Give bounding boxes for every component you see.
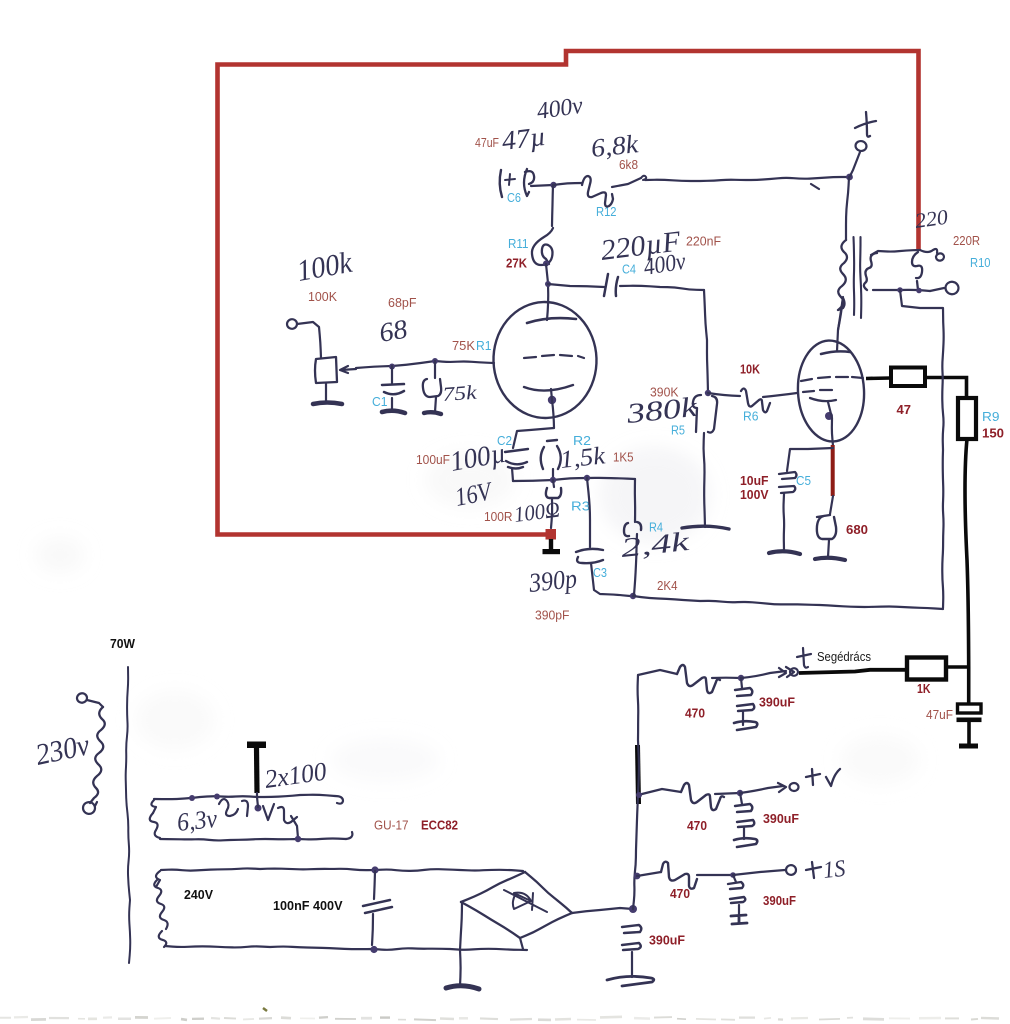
wire row3 to terminal (733, 870, 785, 875)
wire tube2 grid to resistor 47 (866, 376, 891, 380)
resistor R3 100R cup (553, 480, 554, 487)
resistor R9 150 rectangle (958, 398, 976, 439)
ground squiggle below row2 cap (734, 838, 757, 847)
svg-text:390uF: 390uF (763, 811, 799, 826)
wire 470 row3 to cap junction (697, 874, 733, 876)
node junction row3 cap (730, 872, 736, 878)
node input terminal circle (286, 318, 298, 330)
svg-text:6,3v: 6,3v (176, 804, 219, 837)
scan edge bottom band (0, 1017, 11, 1019)
tube V2 anode bar (821, 351, 850, 354)
svg-text:R9: R9 (982, 409, 1000, 424)
svg-text:C1: C1 (372, 394, 388, 409)
wire resistor 1K to R9/47uF rail (946, 665, 969, 669)
capacitor C6 right plate (524, 169, 534, 196)
wire C5 to ground (782, 494, 785, 551)
node junction secondary bottom left (897, 287, 903, 293)
svg-text:100K: 100K (308, 289, 337, 304)
wire cathode bottom bus (513, 478, 635, 481)
inductor mains primary winding (90, 707, 105, 803)
svg-text:47uF: 47uF (475, 135, 499, 150)
node junction C6/R11/R12 (550, 182, 556, 188)
wire pot wiper to tube1 grid (356, 361, 494, 368)
node mains terminal bottom circle (82, 801, 96, 815)
node Segedracs terminal chevrons (779, 667, 794, 677)
resistor 47 (plate stopper) rectangle (891, 368, 925, 387)
capacitor C4 220nF plates (604, 274, 618, 296)
capacitor C2 100uF plates (505, 449, 528, 469)
wire row3 rail to 470 (637, 872, 661, 876)
ground below 47uF (959, 744, 978, 749)
wire mains top to primary coil (87, 700, 103, 707)
bridge diode symbol scribble (504, 890, 547, 912)
wire cathode stem tube V2 (828, 402, 833, 446)
node plus terminal circle (855, 140, 868, 152)
HV winding 240V bottom edge (159, 931, 167, 947)
wire primary coil to bottom terminal (95, 802, 97, 806)
wire bottom return to right side (633, 596, 943, 609)
svg-text:390uF: 390uF (759, 695, 795, 710)
capacitor 390uF reservoir (622, 925, 641, 950)
wire row1 to Segedracs terminal (741, 671, 786, 678)
resistor 470 row1 squiggle (677, 665, 720, 693)
wire red feedback loop from R3 ground around left/top to output transformer secondary (218, 51, 919, 535)
tube V2 grid dashes (801, 377, 863, 381)
HV winding left zigzag (154, 880, 167, 929)
svg-text:2K4: 2K4 (657, 578, 678, 593)
tick mark below supply wire (811, 184, 819, 189)
node junction row1 cap (738, 675, 744, 681)
wire plus terminal to junction (850, 152, 860, 176)
capacitor C6 47uF left plate (500, 170, 502, 197)
tube V1 grid dashes (524, 355, 584, 358)
HV winding 240V top edge (156, 871, 160, 887)
wire heater scribble to bottom edge (291, 816, 298, 838)
wire 2x100 stem continues to tap (257, 793, 258, 807)
capacitor C1 68pF (391, 366, 393, 383)
wire R9 bottom down to 1K junction (965, 439, 969, 667)
wire C2 to bottom bus (512, 468, 513, 481)
wire R2 bottom to bus (552, 469, 554, 479)
svg-text:220R: 220R (953, 233, 980, 248)
wire secondary to lower return (900, 290, 944, 608)
wire bridge output to rail junction (572, 908, 633, 913)
svg-text:470: 470 (687, 818, 707, 833)
capacitor C3 390pF (587, 478, 590, 547)
ground at red wire end below R3 (549, 539, 553, 550)
svg-text:240V: 240V (184, 887, 213, 902)
ground below R5 (682, 526, 729, 529)
svg-text:100uF: 100uF (416, 452, 450, 467)
wire cathode stem tube V1 (551, 389, 554, 428)
svg-text:10uF: 10uF (740, 473, 769, 488)
svg-text:C6: C6 (507, 190, 521, 205)
node junction C3/R4 bottom (630, 593, 636, 599)
node junction R3 on bus (550, 477, 556, 483)
svg-text:680: 680 (846, 522, 868, 537)
OT secondary top edge (871, 250, 920, 255)
wire Segedracs terminal to resistor 1K (799, 670, 907, 673)
svg-text:70W: 70W (110, 636, 136, 651)
capacitor 47uF polarized plates (958, 704, 982, 713)
tube V1 envelope (492, 300, 599, 420)
svg-text:R6: R6 (743, 409, 759, 424)
svg-text:1K5: 1K5 (613, 450, 634, 465)
heater winding right hook bottom (346, 832, 352, 839)
ground below 680 (815, 558, 845, 560)
svg-text:390uF: 390uF (763, 893, 796, 908)
node junction R1 (432, 358, 438, 364)
row1 wire rail corner to 470 (638, 670, 677, 675)
capacitor 390uF row3 (733, 875, 736, 882)
heater scribble between taps (219, 799, 248, 816)
wire bridge bottom corner to HV bottom edge (520, 938, 523, 949)
node cathode blob tube V2 (825, 412, 833, 420)
svg-text:470: 470 (685, 706, 705, 721)
label plus check handwritten row2 (806, 769, 840, 786)
wire input terminal to volume pot (297, 322, 321, 358)
OT core line right (860, 237, 861, 318)
label plus handwritten at output terminal (855, 112, 876, 137)
svg-text:390uF: 390uF (649, 933, 685, 948)
resistor R2 1K5 arcs (541, 440, 561, 469)
wire R6 to tube2 grid (763, 393, 797, 397)
node secondary bottom terminal circle (945, 281, 960, 295)
ground below bridge (446, 986, 479, 989)
wire dark red cathode segment (831, 445, 835, 496)
ground below R1 (424, 412, 441, 414)
tube V1 cathode arc (524, 385, 573, 391)
node secondary top terminal circle (935, 253, 944, 262)
svg-text:Segédrács: Segédrács (817, 649, 871, 664)
ground below C1 (382, 411, 405, 413)
svg-text:220nF: 220nF (686, 234, 721, 249)
resistor R6 10K squiggle (708, 393, 740, 396)
svg-text:150: 150 (982, 426, 1004, 441)
wire R11 to anode node (546, 264, 548, 283)
wire supply junction down to OT primary (846, 177, 849, 240)
node junction heater tap 2 (214, 794, 220, 800)
node junction C1 (389, 364, 395, 370)
node junction plus supply (846, 174, 853, 181)
wire 470 row1 to cap junction (712, 677, 740, 680)
wire anode node to C4 (548, 284, 604, 287)
wire 47uF to ground (967, 722, 971, 744)
wire cathode to 680 resistor (830, 496, 833, 514)
label plus handwritten Segedracs (797, 648, 811, 668)
node cathode feedthrough blob tube V1 (548, 396, 556, 404)
svg-text:100R: 100R (484, 509, 513, 524)
heater scribble V right (263, 804, 297, 823)
capacitor 100nF 400V (374, 871, 375, 899)
wire secondary bottom to terminal (930, 288, 944, 291)
node row3 terminal circle (785, 864, 797, 875)
resistor R5 390K squiggle (693, 395, 717, 433)
capacitor 390uF row2 (740, 793, 742, 804)
node junction C3 on bus (584, 475, 590, 481)
OT secondary bottom edge (873, 290, 930, 291)
capacitor C5 10uF plates (779, 472, 797, 493)
wire R3 to red node (551, 499, 552, 528)
OT core line left (852, 237, 855, 315)
node junction 100nF top (371, 866, 378, 873)
svg-text:47: 47 (897, 402, 912, 417)
node junction R5/R6 (705, 390, 711, 396)
wire cathode to C2 (513, 428, 554, 448)
label plus 15 handwritten row3 (806, 862, 821, 878)
resistor R1 75K grid leak (434, 361, 436, 378)
wire row2 rail corner to 470 (638, 789, 681, 795)
inductor OT primary winding (838, 240, 847, 310)
node row2 terminal circle (778, 783, 786, 792)
resistor 680 squiggle (817, 515, 836, 539)
svg-text:220: 220 (913, 205, 950, 233)
resistor R12 6k8 squiggle (553, 183, 582, 185)
node junction below R11 (543, 261, 549, 267)
wire cathode to C5 (787, 448, 833, 471)
wire 680 to ground (828, 540, 829, 557)
svg-text:75k: 75k (442, 382, 479, 406)
wire secondary top hook to terminal (920, 249, 937, 253)
heater winding 6,3V top edge (151, 800, 156, 813)
svg-text:C4: C4 (622, 262, 636, 277)
svg-text:75K: 75K (452, 338, 475, 353)
transformer core line (126, 667, 131, 963)
resistor R11 27K squiggle (552, 185, 553, 226)
node junction heater tap 1 (189, 795, 195, 801)
svg-text:ECC82: ECC82 (421, 818, 458, 833)
potentiometer 100K body (315, 357, 337, 383)
wire R12 to plus supply junction (612, 178, 641, 187)
heater winding right hook top (335, 796, 343, 804)
ground below pot (313, 403, 342, 405)
inductor OT secondary left bumps (864, 253, 877, 290)
svg-text:R1: R1 (476, 338, 492, 353)
wire OT primary bottom into tube V2 anode (837, 298, 843, 351)
ground bar below row3 cap (731, 915, 747, 924)
node junction anode/C4 (545, 281, 551, 287)
wire supply rail vertical (633, 675, 639, 909)
svg-text:47µ: 47µ (500, 121, 547, 156)
ground below C5 (769, 551, 800, 554)
resistor 470 row2 squiggle (681, 783, 724, 810)
svg-text:C5: C5 (796, 473, 811, 488)
svg-text:R10: R10 (970, 255, 991, 270)
resistor R10 220R squiggle (912, 252, 922, 290)
node junction row2 cap (737, 790, 743, 796)
svg-text:68: 68 (377, 313, 410, 347)
wire resistor 47 to R9 top (925, 378, 967, 399)
wire C6 to junction (531, 185, 553, 186)
bridge rectifier diamond (525, 872, 572, 913)
wire C4 to R5/R6 node (620, 286, 704, 290)
resistor 470 row3 squiggle (661, 862, 697, 889)
capacitor 390uF row1 (741, 678, 742, 688)
node junction 100nF bottom (370, 946, 377, 953)
node junction row2 rail (636, 792, 642, 798)
svg-text:GU-17: GU-17 (374, 818, 409, 833)
node junction heater bottom (295, 836, 301, 842)
node mains terminal top circle (76, 693, 87, 704)
wire pot to ground (325, 383, 327, 403)
capacitor 2x100 black tee symbol (247, 742, 266, 749)
svg-text:1S: 1S (822, 856, 847, 884)
wire row2 to terminal (740, 786, 783, 793)
svg-text:27K: 27K (506, 256, 528, 271)
svg-text:390p: 390p (527, 563, 579, 598)
resistor R4 2K4 (634, 479, 636, 522)
wire anode stem inside tube V1 (547, 284, 548, 320)
svg-text:100V: 100V (740, 487, 769, 502)
svg-text:6k8: 6k8 (619, 157, 638, 172)
svg-text:C3: C3 (593, 565, 607, 580)
svg-text:R5: R5 (671, 423, 685, 438)
capacitor C6 plus sign (505, 174, 515, 185)
svg-text:1K: 1K (917, 681, 931, 696)
wire bridge left corner to ground (460, 903, 462, 986)
wire thick overlay on supply rail (638, 745, 639, 804)
svg-text:100nF 400V: 100nF 400V (273, 898, 343, 913)
ground squiggle below reservoir cap (607, 976, 654, 986)
svg-text:47uF: 47uF (926, 707, 953, 722)
node junction row3 rail (634, 873, 641, 880)
resistor 1K rectangle (907, 658, 946, 680)
wire pot wiper arrow (340, 366, 356, 373)
svg-text:1,5k: 1,5k (559, 442, 608, 474)
svg-text:R3: R3 (571, 499, 590, 514)
node junction 2x100 tap (255, 805, 262, 812)
svg-text:10K: 10K (740, 362, 761, 377)
node junction secondary bottom right (916, 288, 922, 294)
node red wire end square junction at R3 bottom (546, 529, 557, 540)
node junction rectifier output (629, 905, 637, 913)
svg-text:390pF: 390pF (535, 608, 570, 623)
svg-text:470: 470 (670, 886, 690, 901)
heater winding bottom edge (150, 813, 160, 838)
tube V2 envelope (795, 339, 866, 443)
svg-text:68pF: 68pF (388, 295, 417, 310)
wire C3 to bottom node (591, 563, 630, 596)
ground squiggle below row1 cap (734, 721, 757, 730)
wire junction down to capacitor 47uF (967, 667, 971, 704)
tube V2 cathode arc (810, 398, 836, 401)
tube V1 anode bar (527, 318, 576, 323)
svg-text:R11: R11 (508, 236, 529, 251)
wire 470 row2 to cap junction (715, 793, 740, 794)
